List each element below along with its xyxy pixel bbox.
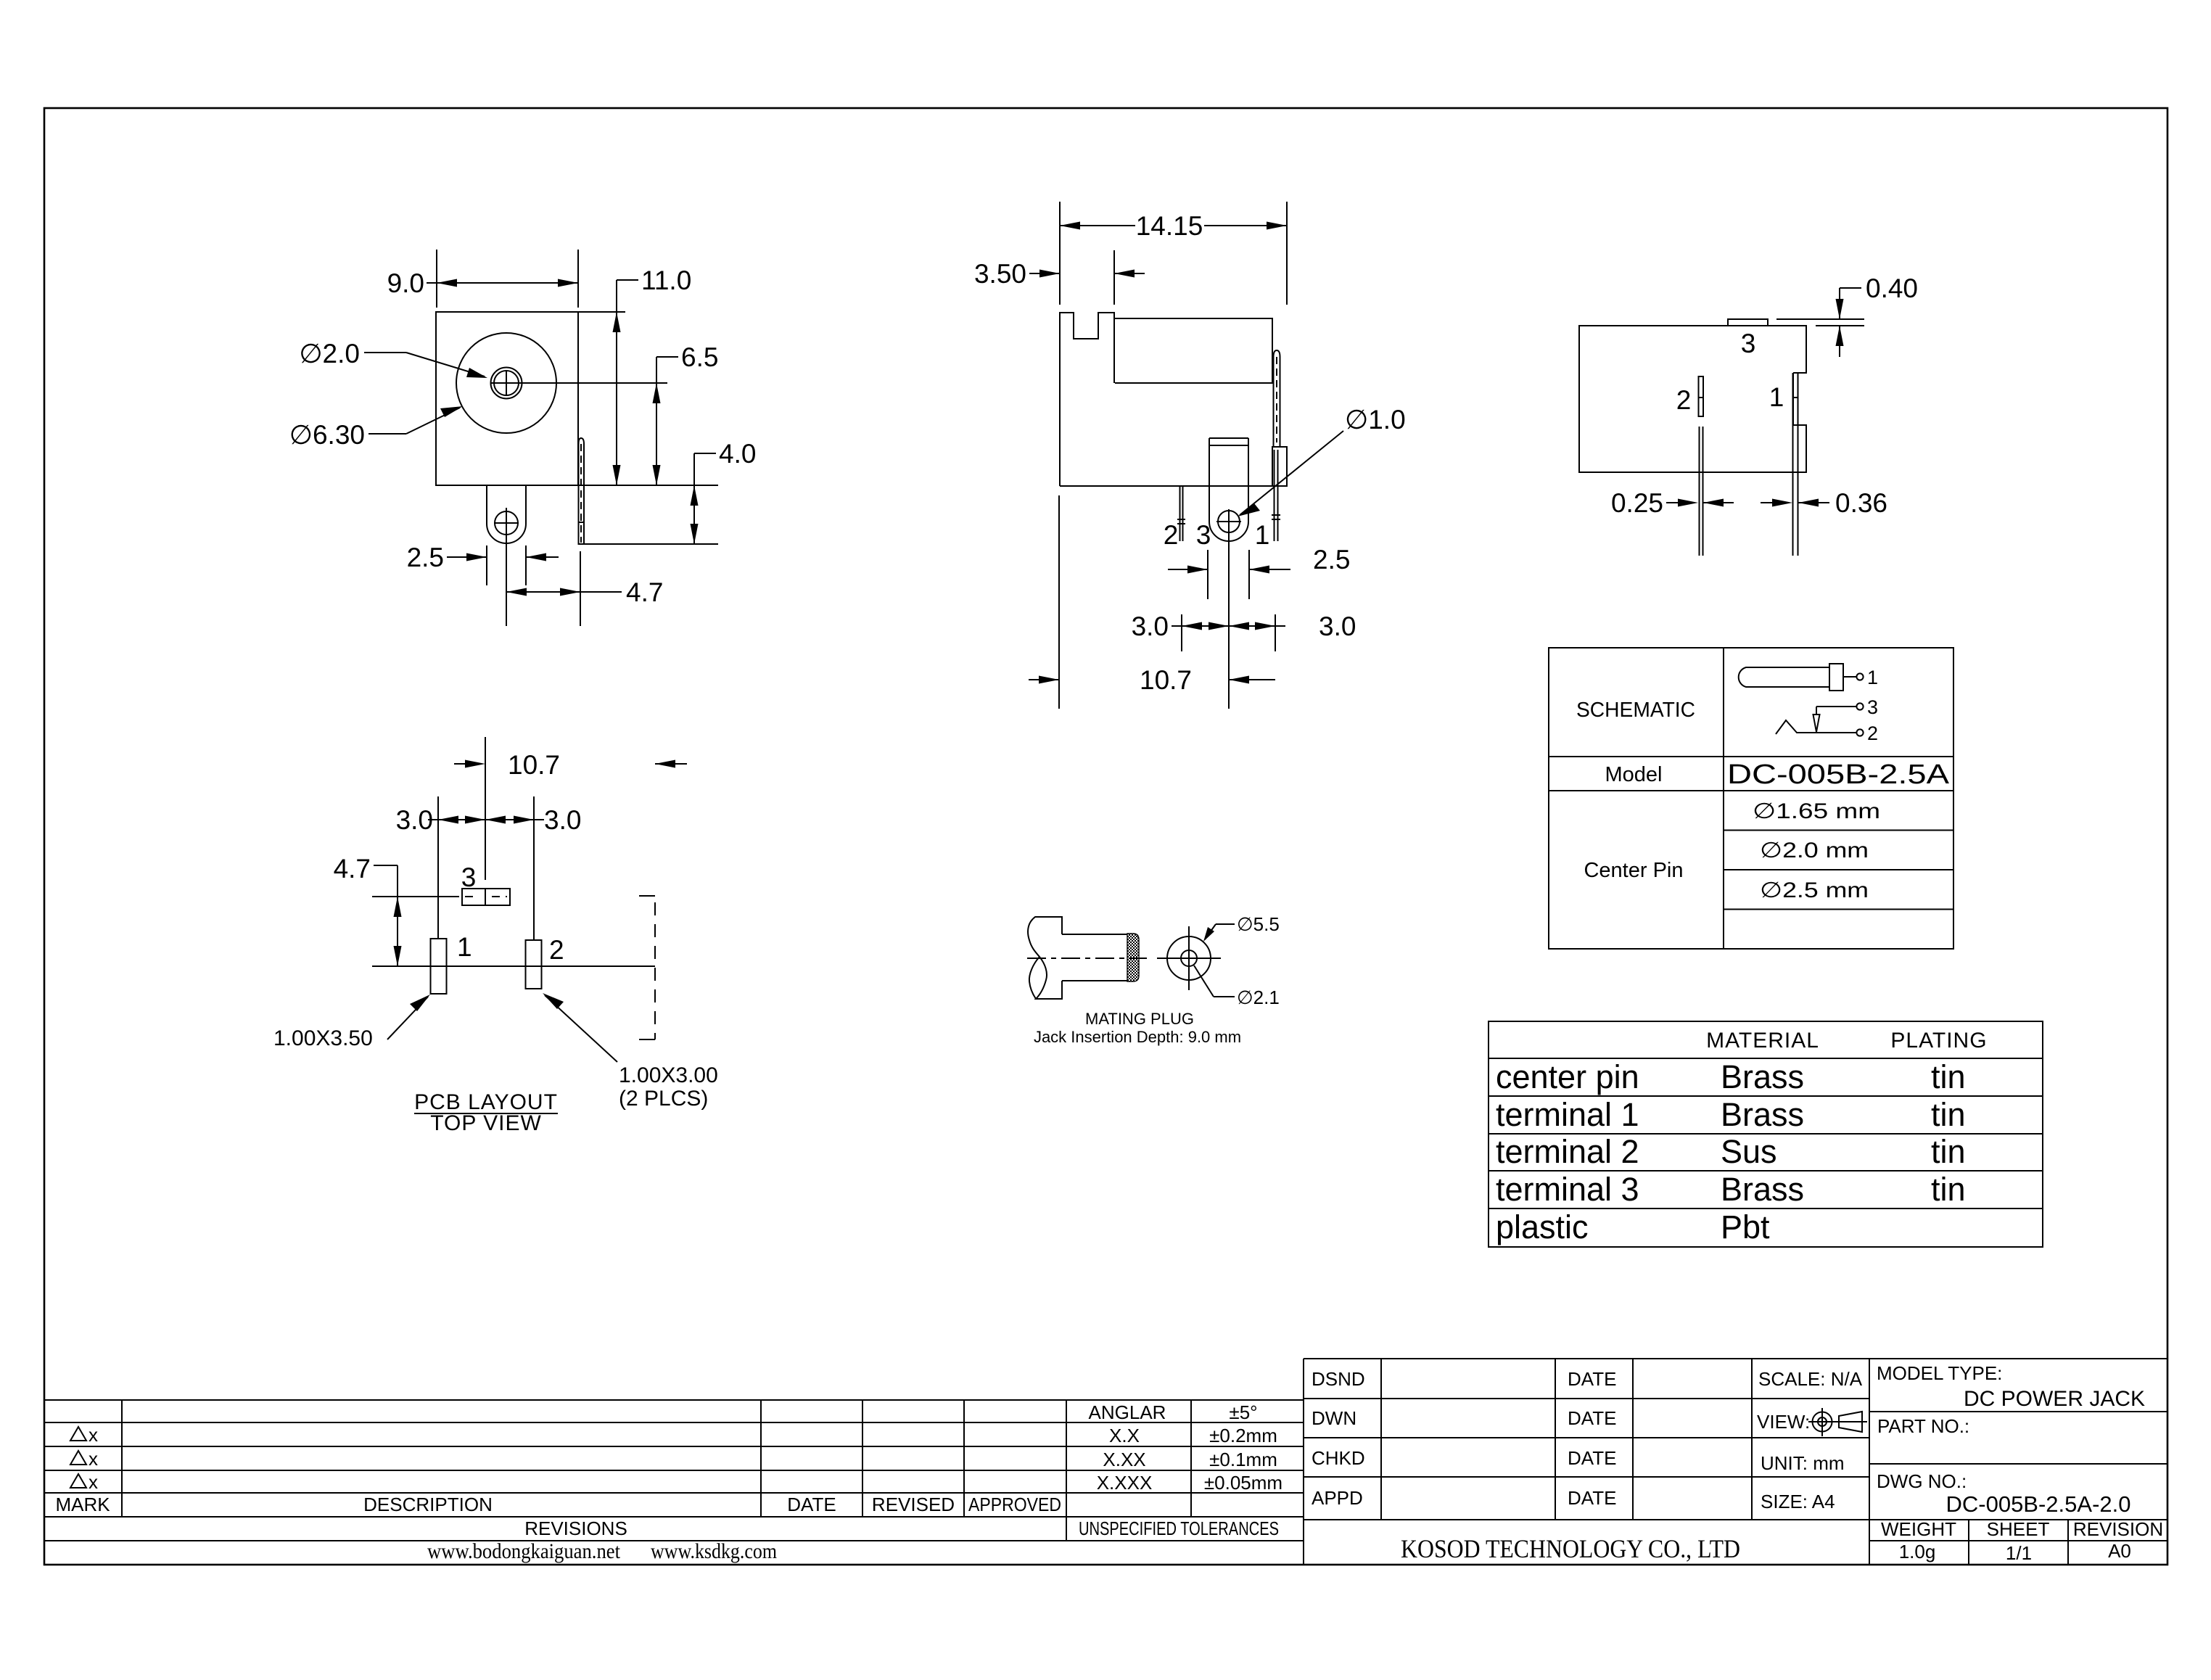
label 3 (pcb) — [461, 862, 477, 892]
svg-text:terminal 2: terminal 2 — [1496, 1133, 1639, 1170]
svg-text:x: x — [88, 1471, 98, 1493]
svg-text:±0.1mm: ±0.1mm — [1209, 1449, 1277, 1470]
side view body outline — [1060, 313, 1287, 486]
pads center line (horizontal) — [372, 965, 655, 967]
svg-text:2: 2 — [1676, 385, 1692, 415]
svg-text:14.15: 14.15 — [1136, 211, 1203, 241]
svg-text:1: 1 — [1769, 382, 1784, 412]
svg-text:SCALE: N/A: SCALE: N/A — [1758, 1368, 1863, 1390]
svg-text:3.0: 3.0 — [396, 805, 433, 835]
svg-text:www.bodongkaiguan.net: www.bodongkaiguan.net — [427, 1539, 621, 1563]
PART NO cell — [1877, 1415, 1969, 1437]
row terminal 2 — [1496, 1133, 1966, 1170]
svg-text:1: 1 — [457, 932, 472, 962]
dimension 0.36 — [1761, 488, 1887, 518]
dimension 2.5 (tab width) — [407, 543, 559, 585]
svg-text:6.5: 6.5 — [681, 342, 718, 372]
row terminal 3 — [1496, 1171, 1966, 1208]
svg-text:DWN: DWN — [1312, 1407, 1356, 1429]
svg-text:2.5: 2.5 — [1313, 545, 1350, 575]
pin number labels 2 3 1 — [1164, 520, 1270, 550]
side view flange tab — [1273, 350, 1287, 447]
center pin shaft (side view) — [1209, 438, 1248, 541]
svg-text:DATE: DATE — [1568, 1407, 1616, 1429]
svg-text:terminal 1: terminal 1 — [1496, 1096, 1639, 1133]
svg-text:1: 1 — [1867, 667, 1878, 688]
svg-text:DC-005B-2.5A-2.0: DC-005B-2.5A-2.0 — [1946, 1491, 2130, 1517]
label 1 (pcb) — [457, 932, 472, 962]
revision mark triangle row 3 — [70, 1471, 98, 1493]
svg-text:TOP VIEW: TOP VIEW — [430, 1111, 542, 1135]
MODEL TYPE cell — [1877, 1362, 2145, 1411]
svg-text:3.50: 3.50 — [974, 259, 1026, 289]
svg-text:A0: A0 — [2108, 1540, 2131, 1562]
pad 2 (pcb) — [526, 940, 542, 989]
dimension 2.5 (side, pin shaft) — [1168, 545, 1350, 599]
plug center line — [1027, 958, 1147, 959]
svg-text:∅2.0: ∅2.0 — [299, 339, 360, 368]
svg-text:DC-005B-2.5A: DC-005B-2.5A — [1727, 759, 1950, 790]
svg-text:WEIGHT: WEIGHT — [1881, 1518, 1956, 1540]
lower solder tab (front view) — [487, 485, 526, 543]
label Ø6.30 with leader — [289, 406, 463, 450]
svg-text:SIZE: A4: SIZE: A4 — [1761, 1491, 1835, 1512]
dimension 9.0 — [387, 250, 578, 308]
MATING PLUG caption — [1034, 1010, 1241, 1046]
svg-text:APPROVED: APPROVED — [968, 1494, 1061, 1515]
svg-text:ANGLAR: ANGLAR — [1089, 1401, 1166, 1423]
label Ø1.0 with leader — [1238, 405, 1406, 516]
plug barrel — [1062, 934, 1127, 981]
svg-text:2.5: 2.5 — [407, 543, 444, 572]
DWG NO cell — [1877, 1470, 2131, 1517]
svg-text:SCHEMATIC: SCHEMATIC — [1576, 699, 1695, 722]
first angle projection symbol — [1808, 1408, 1867, 1436]
row terminal 1 — [1496, 1096, 1966, 1133]
svg-text:VIEW:: VIEW: — [1757, 1411, 1810, 1433]
svg-text:3.0: 3.0 — [1319, 612, 1356, 641]
revisions table grid — [44, 1359, 1304, 1565]
pad 1 (pcb) — [431, 939, 447, 994]
MARK / DESCRIPTION / DATE / REVISED / APPROVED headers — [55, 1494, 1061, 1515]
right flange (front view) — [579, 438, 585, 544]
svg-text:(2 PLCS): (2 PLCS) — [619, 1087, 708, 1111]
row plastic — [1496, 1208, 1770, 1245]
material table box — [1489, 1021, 2043, 1247]
dimension 6.5 — [653, 342, 719, 485]
pad 3 reference line — [372, 896, 459, 897]
svg-text:10.7: 10.7 — [1140, 665, 1192, 695]
svg-text:3: 3 — [1196, 520, 1211, 550]
svg-text:DSND: DSND — [1312, 1368, 1365, 1390]
svg-text:DESCRIPTION: DESCRIPTION — [363, 1494, 493, 1515]
svg-text:tin: tin — [1931, 1058, 1966, 1095]
front view body square — [436, 312, 578, 485]
svg-text:Jack Insertion Depth: 9.0 mm: Jack Insertion Depth: 9.0 mm — [1034, 1028, 1241, 1046]
dimension 0.40 — [1776, 273, 1918, 357]
schematic symbol: plug barrel — [1739, 664, 1843, 691]
schematic pin 3 contact — [1813, 696, 1879, 732]
svg-text:DATE: DATE — [1568, 1447, 1616, 1469]
svg-text:2: 2 — [549, 935, 564, 965]
svg-text:REVISION: REVISION — [2073, 1518, 2163, 1540]
svg-text:10.7: 10.7 — [508, 750, 560, 780]
dimension 14.15 — [1060, 202, 1287, 305]
center pin circles Ø2.0 — [491, 368, 522, 399]
svg-text:0.25: 0.25 — [1611, 488, 1663, 518]
label 3 (back view) — [1741, 329, 1756, 358]
terminal pin 2 (back view) — [1699, 376, 1704, 556]
svg-text:X.XXX: X.XXX — [1097, 1472, 1153, 1494]
svg-text:Pbt: Pbt — [1721, 1208, 1770, 1245]
terminal 3 top tab — [1728, 319, 1768, 326]
terminal pin 2 (side view) — [1177, 486, 1185, 541]
svg-text:tin: tin — [1931, 1171, 1966, 1208]
svg-text:APPD: APPD — [1312, 1487, 1363, 1509]
svg-text:0.36: 0.36 — [1835, 488, 1887, 518]
svg-text:∅1.65 mm: ∅1.65 mm — [1753, 799, 1880, 823]
dimensions 3.0 / 3.0 (pcb) — [396, 805, 582, 835]
svg-text:X.X: X.X — [1109, 1425, 1140, 1446]
svg-text:UNIT: mm: UNIT: mm — [1761, 1452, 1845, 1474]
leader 1.00X3.50 — [273, 995, 430, 1050]
dimension 4.7 (pcb) — [334, 854, 402, 966]
dimension 10.7 (pcb) — [454, 750, 687, 780]
dimensions 3.0 / 3.0 (side) — [1132, 612, 1356, 651]
knurled tip — [1127, 934, 1139, 981]
svg-text:center pin: center pin — [1496, 1058, 1639, 1095]
WEIGHT SHEET REVISION cells — [1881, 1518, 2163, 1564]
svg-text:3: 3 — [461, 862, 477, 892]
svg-text:1: 1 — [1255, 520, 1270, 550]
svg-text:plastic: plastic — [1496, 1208, 1589, 1245]
svg-text:PART NO.:: PART NO.: — [1877, 1415, 1969, 1437]
svg-text:±5°: ±5° — [1229, 1401, 1257, 1423]
Center Pin rows — [1584, 799, 1880, 902]
label Ø2.0 with leader — [299, 339, 487, 378]
dashed body outline (pcb) — [639, 896, 655, 1039]
schematic table box — [1549, 648, 1953, 949]
plug front view circles — [1157, 926, 1221, 990]
SCHEMATIC label — [1576, 699, 1695, 722]
svg-text:Center Pin: Center Pin — [1584, 859, 1683, 882]
pcb center line — [485, 737, 486, 880]
REVISIONS caption — [524, 1518, 627, 1539]
svg-text:DATE: DATE — [787, 1494, 836, 1515]
svg-text:x: x — [88, 1448, 98, 1470]
svg-text:X.XX: X.XX — [1103, 1449, 1145, 1470]
front view barrel circle Ø6.30 — [456, 333, 556, 433]
dimension 11.0 — [578, 265, 691, 485]
pcb pad extension lines — [438, 796, 534, 940]
terminal pin 1 (back view) — [1793, 373, 1798, 556]
dimension 4.0 — [578, 439, 756, 544]
svg-text:4.0: 4.0 — [719, 439, 756, 469]
row center pin — [1496, 1058, 1966, 1095]
svg-text:CHKD: CHKD — [1312, 1447, 1365, 1469]
svg-text:DATE: DATE — [1568, 1487, 1616, 1509]
svg-text:±0.2mm: ±0.2mm — [1209, 1425, 1277, 1446]
dimension 4.7 (front) — [506, 551, 663, 626]
svg-text:Sus: Sus — [1721, 1133, 1777, 1170]
label Ø2.1 with leader — [1194, 965, 1280, 1008]
svg-text:1/1: 1/1 — [2006, 1542, 2032, 1564]
svg-text:MARK: MARK — [55, 1494, 110, 1515]
svg-text:2: 2 — [1164, 520, 1179, 550]
svg-text:3: 3 — [1867, 696, 1878, 718]
material table headers — [1706, 1029, 1987, 1053]
svg-text:x: x — [88, 1424, 98, 1446]
revision mark triangle row 2 — [70, 1448, 98, 1470]
label Ø5.5 with leader — [1203, 913, 1280, 942]
pin hole Ø1.0 circle — [1216, 509, 1241, 709]
revision mark triangle row 1 — [70, 1424, 98, 1446]
svg-text:DWG NO.:: DWG NO.: — [1877, 1470, 1967, 1492]
svg-text:terminal 3: terminal 3 — [1496, 1171, 1639, 1208]
svg-text:UNSPECIFIED TOLERANCES: UNSPECIFIED TOLERANCES — [1079, 1518, 1279, 1539]
svg-text:4.7: 4.7 — [626, 577, 663, 607]
svg-text:tin: tin — [1931, 1096, 1966, 1133]
mating plug cable body — [1028, 917, 1062, 999]
svg-text:MATERIAL: MATERIAL — [1706, 1029, 1819, 1053]
svg-text:MODEL TYPE:: MODEL TYPE: — [1877, 1362, 2002, 1384]
svg-text:Brass: Brass — [1721, 1058, 1804, 1095]
pad 3 (pcb) — [462, 889, 510, 905]
UNSPECIFIED TOLERANCES caption — [1079, 1518, 1279, 1539]
svg-text:SHEET: SHEET — [1987, 1518, 2050, 1540]
svg-text:REVISIONS: REVISIONS — [524, 1518, 627, 1539]
svg-text:Brass: Brass — [1721, 1096, 1804, 1133]
svg-text:∅6.30: ∅6.30 — [289, 420, 365, 450]
DSND / DWN / CHKD / APPD labels — [1312, 1368, 1365, 1509]
schematic pin 2 sleeve with spring — [1776, 720, 1878, 744]
svg-text:∅1.0: ∅1.0 — [1345, 405, 1406, 435]
svg-text:4.7: 4.7 — [334, 854, 371, 884]
dimension 0.25 — [1611, 488, 1734, 518]
title block grid (right) — [1304, 1359, 2167, 1565]
dimension 10.7 (side) — [1029, 495, 1275, 709]
svg-text:11.0: 11.0 — [641, 265, 691, 295]
PCB LAYOUT / TOP VIEW caption — [414, 1090, 558, 1135]
svg-text:0.40: 0.40 — [1866, 273, 1918, 303]
tab hole circle — [494, 508, 519, 626]
svg-text:3: 3 — [1741, 329, 1756, 358]
svg-text:∅5.5: ∅5.5 — [1237, 913, 1280, 935]
svg-text:9.0: 9.0 — [387, 268, 424, 298]
svg-text:www.ksdkg.com: www.ksdkg.com — [651, 1539, 777, 1563]
back view body outline — [1579, 326, 1806, 472]
svg-text:3.0: 3.0 — [544, 805, 581, 835]
svg-text:Model: Model — [1605, 763, 1663, 786]
leader 1.00X3.00 (2 PLCS) — [543, 993, 718, 1111]
svg-text:1.0g: 1.0g — [1899, 1541, 1936, 1562]
dimension 3.50 — [974, 250, 1145, 305]
websites row — [427, 1539, 777, 1563]
svg-text:∅2.0 mm: ∅2.0 mm — [1760, 839, 1869, 862]
tolerance table texts — [1089, 1401, 1283, 1494]
Model row — [1605, 759, 1950, 790]
svg-text:1.00X3.00: 1.00X3.00 — [619, 1063, 718, 1087]
svg-text:3.0: 3.0 — [1132, 612, 1169, 641]
schematic pin 1 contact — [1843, 667, 1878, 688]
KOSOD company name — [1401, 1534, 1740, 1563]
svg-text:1.00X3.50: 1.00X3.50 — [273, 1026, 373, 1050]
svg-text:KOSOD TECHNOLOGY CO., LTD: KOSOD TECHNOLOGY CO., LTD — [1401, 1534, 1740, 1563]
svg-text:±0.05mm: ±0.05mm — [1204, 1472, 1282, 1494]
svg-text:2: 2 — [1867, 722, 1878, 744]
svg-text:Brass: Brass — [1721, 1171, 1804, 1208]
svg-text:DATE: DATE — [1568, 1368, 1616, 1390]
DATE labels column — [1568, 1368, 1616, 1509]
svg-text:MATING PLUG: MATING PLUG — [1085, 1010, 1194, 1028]
SCALE / VIEW / UNIT / SIZE cells — [1757, 1368, 1863, 1512]
labels 2 and 1 (back view) — [1676, 382, 1784, 415]
label 2 (pcb) — [549, 935, 564, 965]
svg-text:∅2.1: ∅2.1 — [1237, 987, 1280, 1008]
svg-text:REVISED: REVISED — [872, 1494, 955, 1515]
terminal pin 1 (side view) — [1272, 450, 1280, 541]
svg-text:DC POWER JACK: DC POWER JACK — [1964, 1387, 2145, 1411]
center pin crosshair — [490, 371, 667, 395]
svg-text:PLATING: PLATING — [1890, 1029, 1987, 1053]
svg-text:tin: tin — [1931, 1133, 1966, 1170]
svg-text:∅2.5 mm: ∅2.5 mm — [1760, 878, 1869, 902]
